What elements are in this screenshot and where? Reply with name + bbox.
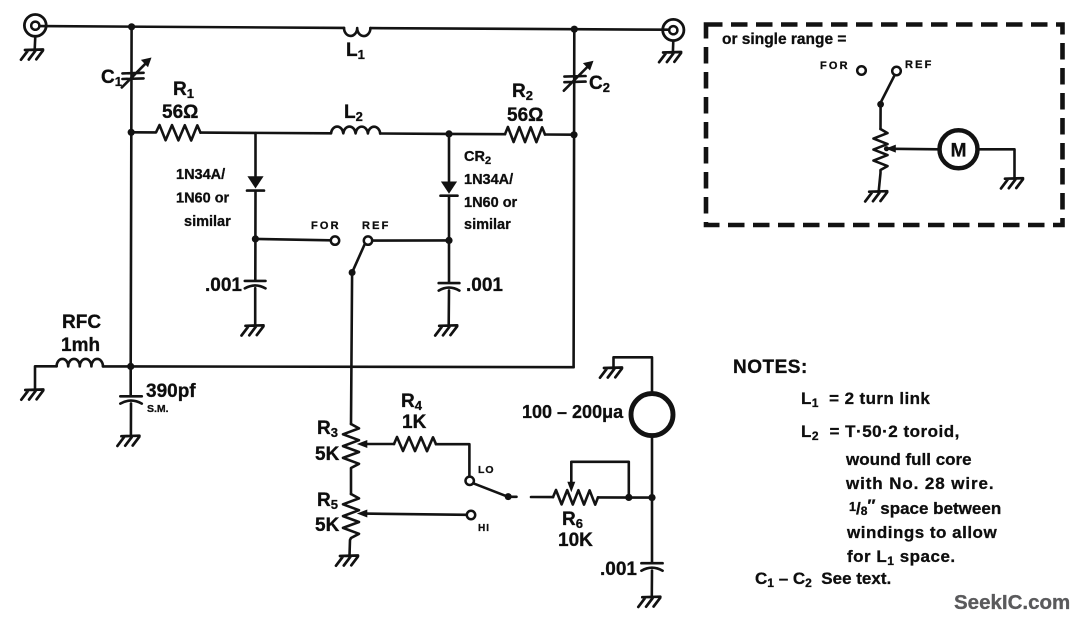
svg-text:M: M [951,141,967,162]
meter M1 100-200ua [631,394,673,436]
ground under R5 [336,556,358,566]
svg-text:R5: R5 [317,490,338,512]
ground under J1 [21,50,43,60]
svg-text:LO: LO [478,464,495,476]
svg-text:1N60 or: 1N60 or [176,191,230,207]
svg-text:C1: C1 [101,67,122,89]
wire top rail left [40,26,344,28]
wire rail2 to L2 [201,131,332,134]
svg-text:R4: R4 [401,391,423,413]
inductor L2 [331,127,380,134]
node right vertical top [571,26,578,33]
switch S3 REF contact [892,67,901,76]
svg-text:1N34A/: 1N34A/ [464,172,513,188]
meter M2 (box) [940,130,978,168]
wire R2 to right vertical [545,133,574,136]
svg-text:R3: R3 [317,418,338,440]
wire R4 to LO contact [436,444,469,476]
ground at meter top [600,368,622,378]
ground under C4 [435,325,457,335]
node meter line junction [648,494,655,501]
svg-text:windings to allow: windings to allow [846,523,997,542]
node top-left junction [128,23,135,30]
wiper arrow R7 to meter [884,145,938,153]
svg-text:S.M.: S.M. [147,403,169,415]
switch S1 FOR contact [331,236,339,244]
svg-text:CR2: CR2 [464,149,491,167]
wiper arrow R5 to HI contact [357,510,467,518]
wire meter top to ground elbow [614,357,653,393]
capacitor C1 (variable) [122,58,152,88]
inductor L1 [344,28,370,36]
svg-text:R6: R6 [562,509,583,531]
wiper loop R6 [567,462,629,498]
svg-text:C2: C2 [589,73,610,95]
resistor R1 56ohm [131,125,200,141]
svg-text:similar: similar [184,214,231,230]
switch S2 HI contact [467,511,475,519]
svg-text:100 – 200μa: 100 – 200μa [522,402,624,422]
svg-text:REF: REF [362,220,391,232]
wire bottom rail [131,365,574,368]
node R1 left junction [128,129,135,136]
coax connector J1 (input) [24,15,46,50]
wire R6 to meter line [598,496,652,499]
coax connector J2 (output) [663,19,684,52]
potentiometer R5 5K [343,494,359,556]
wire top rail right [370,28,668,30]
ground right of meter (box) [1001,178,1023,188]
svg-text:1/8″ space between: 1/8″ space between [849,496,1001,518]
dashed box (single range option) [706,25,1063,226]
capacitor C3 .001 (left) [245,239,266,326]
wire pole down to R3 [351,273,352,425]
svg-text:L2: L2 [344,102,363,124]
wire to R2 [449,133,505,136]
svg-text:C1 – C2 See text.: C1 – C2 See text. [755,569,891,590]
node CR2 top junction [445,130,452,137]
svg-text:5K: 5K [315,515,340,536]
node bottom rail left junction [127,363,134,370]
svg-text:similar: similar [464,217,511,233]
node R2 right junction [570,131,577,138]
potentiometer R3 5K [343,424,359,494]
capacitor C2 (variable) [564,61,594,91]
svg-text:HI: HI [478,523,490,534]
wire meter to right ground [978,149,1015,178]
svg-text:390pf: 390pf [146,381,196,402]
svg-text:with No. 28 wire.: with No. 28 wire. [845,474,995,493]
diode CR1 [247,133,264,239]
resistor R2 56ohm [505,127,545,142]
switch S3 arm [881,75,895,102]
node S2 pole [505,493,512,500]
capacitor C4 .001 (right) [439,240,460,325]
wire pole to potentiometer [879,104,882,129]
node CR1 bottom junction [252,235,259,242]
svg-text:L1: L1 [346,40,365,62]
ground at RFC left end [21,390,43,400]
svg-text:.001: .001 [600,559,637,580]
wire L2 to CR2 node [380,132,449,135]
svg-text:R1: R1 [173,79,194,101]
svg-text:1N60 or: 1N60 or [464,195,518,211]
wire right vertical (C2 branch down to bottom rail) [572,29,575,367]
svg-text:L1 = 2 turn link: L1 = 2 turn link [801,389,930,410]
svg-text:SeekIC.com: SeekIC.com [954,591,1070,614]
svg-text:NOTES:: NOTES: [733,357,808,378]
wiper arrow R3 [357,440,394,448]
node S3 pole [877,101,884,108]
switch S1 arm [352,244,364,272]
switch S1 REF contact [364,236,372,244]
ground under C5 [117,436,139,446]
svg-text:1K: 1K [402,412,427,433]
wire meter bottom to C6 [651,436,654,563]
svg-text:for L1 space.: for L1 space. [847,547,956,568]
inductor RFC 1mh [35,359,131,390]
svg-text:.001: .001 [205,275,242,296]
svg-text:1N34A/: 1N34A/ [176,167,225,183]
svg-text:RFC: RFC [62,312,101,333]
ground under C6 [638,597,660,607]
diode CR2 [441,134,458,241]
node S1 pole [349,269,356,276]
wire pole to R6 (broken scan dashes) [512,495,554,498]
svg-text:56Ω: 56Ω [162,102,198,123]
svg-text:1mh: 1mh [61,335,100,356]
ground under R7 [865,191,887,201]
svg-text:.001: .001 [466,275,503,296]
capacitor C6 .001 (meter) [641,563,662,597]
switch S3 FOR contact [857,66,866,75]
switch S2 arm [473,483,505,496]
svg-text:L2 = T·50·2 toroid,: L2 = T·50·2 toroid, [801,422,960,443]
node R6 right junction [625,494,632,501]
svg-text:or single range =: or single range = [722,31,846,48]
svg-text:56Ω: 56Ω [507,105,543,126]
switch S2 LO contact [466,477,474,485]
potentiometer R7 (box) [874,129,888,191]
svg-text:REF: REF [905,59,934,71]
svg-text:10K: 10K [558,530,593,551]
wire REF contact to CR2 node [372,239,449,242]
wire CR1 node to FOR contact [255,239,330,240]
svg-text:FOR: FOR [311,220,341,232]
capacitor C5 390pf S.M. [120,366,142,435]
svg-text:R2: R2 [512,81,533,103]
svg-text:wound full core: wound full core [845,450,972,469]
rheostat R6 10K [553,490,598,505]
wire left vertical (C1 branch) [129,27,133,367]
svg-text:5K: 5K [315,444,340,465]
resistor R4 1K [394,437,436,451]
ground under C3 [242,325,264,335]
svg-text:FOR: FOR [820,60,850,72]
node CR2 bottom junction [445,237,452,244]
ground under J2 [659,52,681,62]
